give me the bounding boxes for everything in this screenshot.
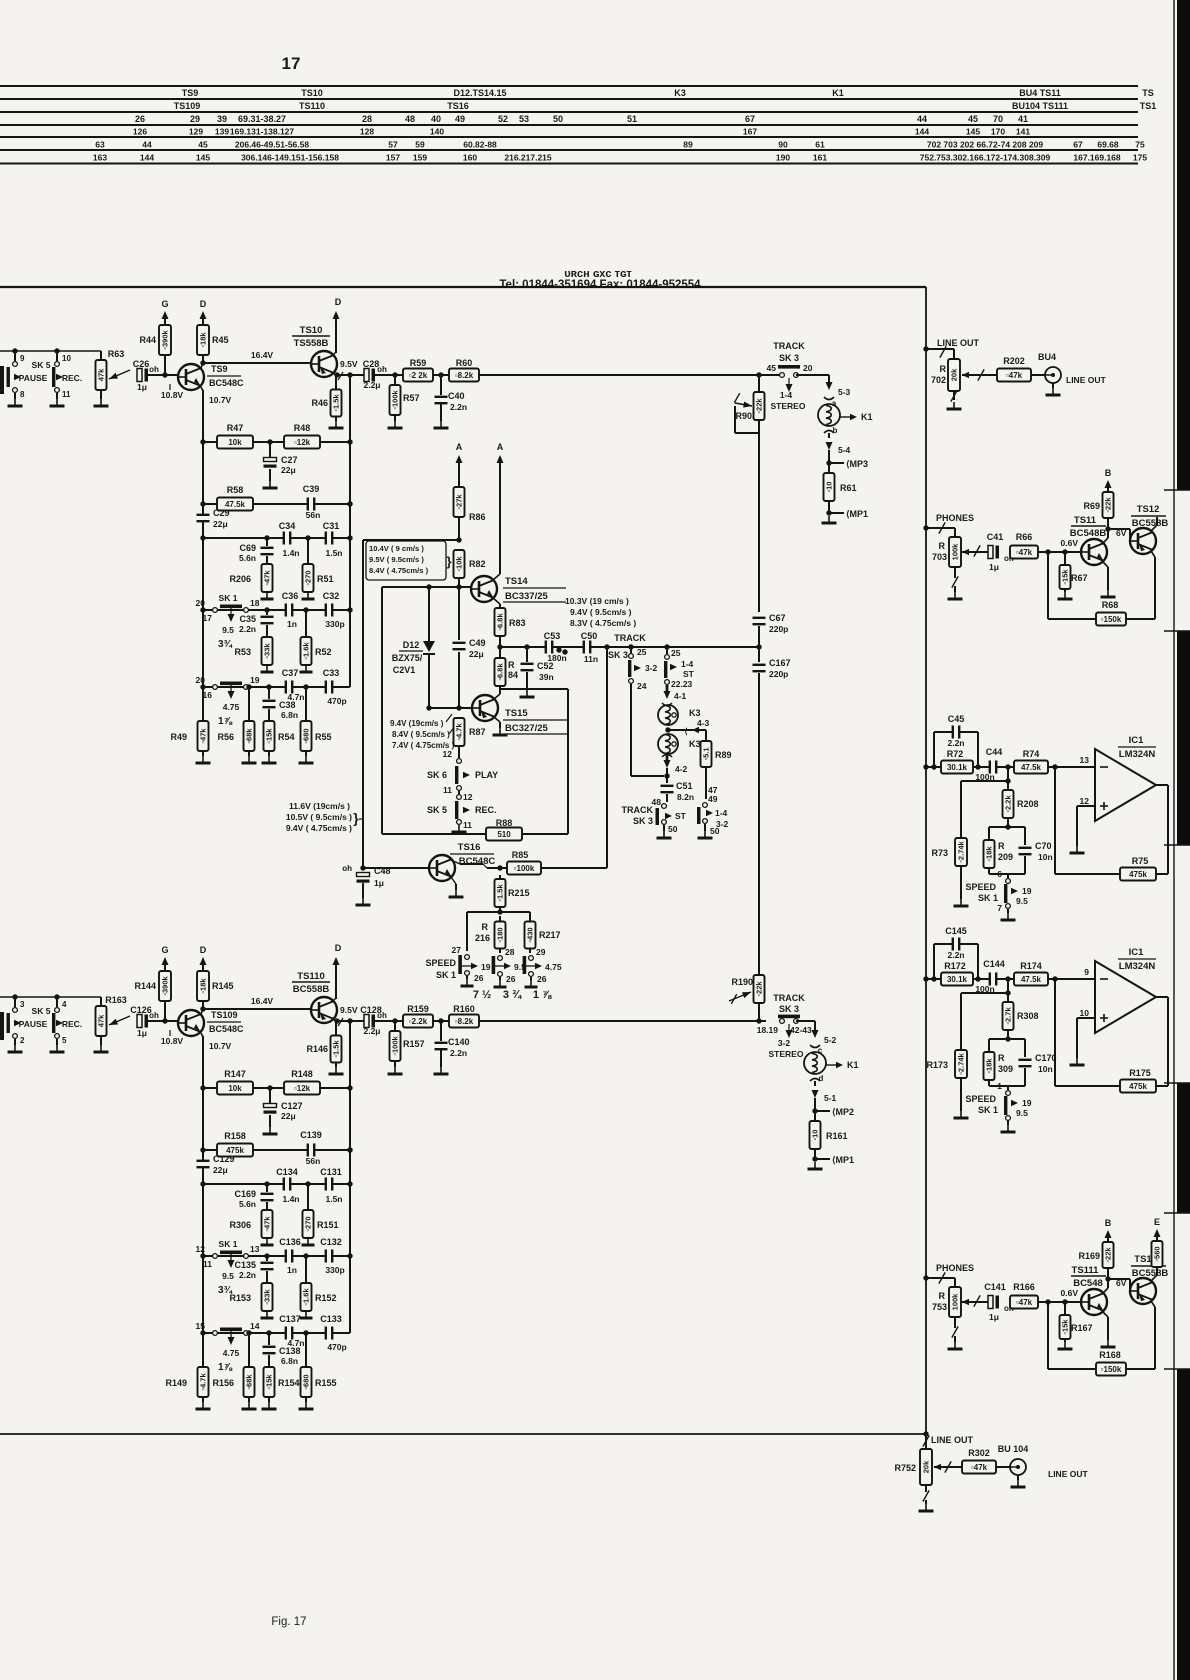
svg-text:10.3V (19 cm/s ): 10.3V (19 cm/s ) bbox=[565, 596, 629, 606]
svg-text:C145: C145 bbox=[945, 926, 967, 936]
svg-text:▫2.2k: ▫2.2k bbox=[409, 1017, 428, 1026]
svg-text:3-2: 3-2 bbox=[778, 1038, 791, 1048]
svg-text:STEREO: STEREO bbox=[769, 1049, 804, 1059]
svg-text:R: R bbox=[939, 541, 946, 551]
svg-text:1μ: 1μ bbox=[989, 1312, 999, 1322]
svg-text:TS109: TS109 bbox=[211, 1010, 238, 1020]
svg-text:PAUSE: PAUSE bbox=[19, 1019, 48, 1029]
svg-text:C140: C140 bbox=[448, 1037, 470, 1047]
svg-text:TS15: TS15 bbox=[505, 708, 528, 719]
svg-text:B: B bbox=[1105, 1218, 1112, 1228]
svg-text:K1: K1 bbox=[847, 1060, 859, 1070]
svg-text:D: D bbox=[335, 943, 342, 953]
svg-text:▫18k: ▫18k bbox=[199, 332, 208, 348]
svg-text:84: 84 bbox=[508, 670, 518, 680]
svg-text:67: 67 bbox=[745, 114, 755, 124]
svg-text:216.217.215: 216.217.215 bbox=[504, 153, 552, 163]
svg-text:R55: R55 bbox=[315, 732, 332, 742]
svg-text:50: 50 bbox=[710, 826, 720, 836]
svg-text:5-3: 5-3 bbox=[838, 387, 851, 397]
svg-text:11: 11 bbox=[443, 785, 452, 795]
svg-text:TS110: TS110 bbox=[297, 971, 324, 982]
svg-text:50: 50 bbox=[553, 114, 563, 124]
svg-text:▫68k: ▫68k bbox=[245, 1374, 254, 1390]
svg-text:22μ: 22μ bbox=[281, 1111, 296, 1121]
svg-text:10: 10 bbox=[1080, 1008, 1090, 1018]
svg-text:C67: C67 bbox=[769, 613, 786, 623]
svg-text:R52: R52 bbox=[315, 647, 332, 657]
svg-text:SK 3: SK 3 bbox=[608, 650, 628, 660]
svg-text:▫150k: ▫150k bbox=[1101, 1365, 1122, 1374]
svg-text:10.7V: 10.7V bbox=[209, 395, 232, 405]
svg-text:R83: R83 bbox=[509, 618, 526, 628]
svg-text:C29: C29 bbox=[213, 508, 230, 518]
svg-text:100k: 100k bbox=[951, 543, 960, 561]
svg-text:44: 44 bbox=[917, 114, 927, 124]
svg-text:SK 1: SK 1 bbox=[219, 593, 238, 603]
svg-text:TRACK: TRACK bbox=[773, 993, 805, 1003]
svg-text:▫6.8k: ▫6.8k bbox=[496, 663, 505, 681]
svg-text:A: A bbox=[456, 442, 463, 452]
svg-text:BU4 TS11: BU4 TS11 bbox=[1019, 88, 1061, 98]
svg-text:TS9: TS9 bbox=[182, 88, 199, 98]
svg-text:47k: 47k bbox=[97, 1014, 106, 1027]
svg-text:75: 75 bbox=[1135, 140, 1145, 150]
svg-text:29: 29 bbox=[536, 947, 546, 957]
svg-text:R69: R69 bbox=[1083, 501, 1100, 511]
svg-text:2.2n: 2.2n bbox=[239, 624, 256, 634]
svg-text:10n: 10n bbox=[1038, 852, 1053, 862]
svg-text:R48: R48 bbox=[294, 423, 311, 433]
svg-text:22μ: 22μ bbox=[469, 649, 484, 659]
svg-text:▫47k: ▫47k bbox=[1016, 548, 1033, 557]
svg-text:9.4V ( 9.5cm/s ): 9.4V ( 9.5cm/s ) bbox=[570, 607, 632, 617]
svg-text:C135: C135 bbox=[234, 1260, 256, 1270]
svg-text:1: 1 bbox=[997, 1081, 1002, 1091]
svg-text:TRACK: TRACK bbox=[622, 805, 654, 815]
svg-text:SK 1: SK 1 bbox=[436, 970, 456, 980]
svg-text:12: 12 bbox=[443, 749, 453, 759]
svg-text:19: 19 bbox=[1022, 886, 1032, 896]
svg-text:170: 170 bbox=[991, 127, 1005, 137]
svg-text:BC548C: BC548C bbox=[459, 856, 496, 867]
svg-text:41: 41 bbox=[1018, 114, 1028, 124]
svg-text:R144: R144 bbox=[134, 981, 156, 991]
svg-text:9.5: 9.5 bbox=[222, 1271, 234, 1281]
svg-text:K3: K3 bbox=[689, 739, 701, 749]
svg-text:5.6n: 5.6n bbox=[239, 1199, 256, 1209]
svg-text:145: 145 bbox=[966, 127, 980, 137]
svg-text:G: G bbox=[161, 945, 168, 955]
svg-text:A: A bbox=[497, 442, 504, 452]
svg-text:R308: R308 bbox=[1017, 1011, 1039, 1021]
svg-text:100k: 100k bbox=[951, 1293, 960, 1311]
svg-text:1⅞: 1⅞ bbox=[218, 716, 233, 727]
svg-text:▫15k: ▫15k bbox=[1061, 569, 1070, 585]
svg-text:C52: C52 bbox=[537, 661, 554, 671]
svg-text:K1: K1 bbox=[832, 88, 844, 98]
svg-text:SK 5: SK 5 bbox=[32, 360, 51, 370]
svg-text:20k: 20k bbox=[922, 1460, 931, 1473]
svg-text:▫22k: ▫22k bbox=[1104, 497, 1113, 513]
svg-text:753: 753 bbox=[932, 1302, 947, 1312]
svg-text:19: 19 bbox=[1022, 1098, 1032, 1108]
svg-text:R56: R56 bbox=[217, 732, 234, 742]
svg-text:▫430: ▫430 bbox=[526, 927, 535, 942]
svg-text:67: 67 bbox=[1073, 140, 1083, 150]
svg-text:1-4: 1-4 bbox=[681, 659, 694, 669]
svg-text:1-4: 1-4 bbox=[715, 808, 728, 818]
svg-text:26: 26 bbox=[135, 114, 145, 124]
svg-text:LINE OUT: LINE OUT bbox=[937, 338, 980, 348]
svg-text:▫18k: ▫18k bbox=[985, 846, 994, 862]
svg-text:25: 25 bbox=[637, 647, 647, 657]
svg-text:52: 52 bbox=[498, 114, 508, 124]
svg-text:▫390k: ▫390k bbox=[161, 975, 170, 995]
svg-text:2.2n: 2.2n bbox=[450, 1048, 467, 1058]
svg-text:16: 16 bbox=[203, 690, 213, 700]
svg-text:1μ: 1μ bbox=[989, 562, 999, 572]
svg-text:18.19: 18.19 bbox=[757, 1025, 779, 1035]
svg-text:R163: R163 bbox=[105, 995, 127, 1005]
svg-text:BU4: BU4 bbox=[1038, 352, 1056, 362]
svg-text:C137: C137 bbox=[279, 1314, 301, 1324]
svg-text:R147: R147 bbox=[224, 1069, 246, 1079]
svg-text:R45: R45 bbox=[212, 335, 229, 345]
svg-text:▫1.5k: ▫1.5k bbox=[496, 884, 505, 902]
svg-text:15: 15 bbox=[196, 1321, 206, 1331]
svg-text:R160: R160 bbox=[453, 1004, 475, 1014]
svg-text:470p: 470p bbox=[327, 1342, 346, 1352]
svg-text:C26: C26 bbox=[133, 359, 150, 369]
svg-text:49: 49 bbox=[708, 794, 718, 804]
svg-text:R: R bbox=[939, 1291, 946, 1301]
svg-text:R61: R61 bbox=[840, 483, 857, 493]
svg-text:10n: 10n bbox=[1038, 1064, 1053, 1074]
svg-text:R: R bbox=[998, 1053, 1005, 1063]
svg-text:BC558B: BC558B bbox=[1132, 518, 1169, 529]
svg-text:17: 17 bbox=[282, 54, 301, 73]
svg-text:45: 45 bbox=[767, 363, 777, 373]
svg-text:SK 1: SK 1 bbox=[219, 1239, 238, 1249]
svg-text:9.5: 9.5 bbox=[222, 625, 234, 635]
svg-text:40: 40 bbox=[431, 114, 441, 124]
svg-text:SK 3: SK 3 bbox=[779, 353, 799, 363]
svg-text:▫47k: ▫47k bbox=[263, 570, 272, 586]
svg-text:C134: C134 bbox=[276, 1167, 298, 1177]
svg-text:R306: R306 bbox=[229, 1220, 251, 1230]
svg-text:49: 49 bbox=[455, 114, 465, 124]
svg-text:C136: C136 bbox=[279, 1237, 301, 1247]
svg-text:C70: C70 bbox=[1035, 841, 1052, 851]
svg-text:475k: 475k bbox=[1129, 1082, 1147, 1091]
svg-text:D: D bbox=[335, 297, 342, 307]
svg-text:89: 89 bbox=[683, 140, 693, 150]
svg-text:TS16: TS16 bbox=[447, 101, 469, 111]
svg-text:▫47k: ▫47k bbox=[971, 1463, 988, 1472]
svg-text:0.6V: 0.6V bbox=[1061, 538, 1079, 548]
svg-text:▫15k: ▫15k bbox=[265, 1374, 274, 1390]
svg-text:70: 70 bbox=[993, 114, 1003, 124]
svg-text:167: 167 bbox=[743, 127, 757, 137]
svg-text:C129: C129 bbox=[213, 1154, 235, 1164]
svg-text:R53: R53 bbox=[234, 647, 251, 657]
svg-text:26: 26 bbox=[506, 974, 516, 984]
svg-text:▫47k: ▫47k bbox=[1016, 1298, 1033, 1307]
svg-text:R68: R68 bbox=[1102, 600, 1119, 610]
svg-text:510: 510 bbox=[497, 830, 511, 839]
svg-text:30.1k: 30.1k bbox=[947, 975, 968, 984]
svg-text:Tel: 01844-351694 Fax: 01844-9: Tel: 01844-351694 Fax: 01844-952554 bbox=[499, 279, 701, 291]
svg-text:D: D bbox=[200, 299, 207, 309]
svg-text:▫33k: ▫33k bbox=[263, 1289, 272, 1305]
svg-text:5-4: 5-4 bbox=[838, 445, 851, 455]
svg-text:▫270: ▫270 bbox=[304, 1216, 313, 1231]
svg-text:3¾: 3¾ bbox=[218, 639, 233, 650]
svg-text:4-2: 4-2 bbox=[675, 764, 688, 774]
svg-text:⟨MP3: ⟨MP3 bbox=[846, 459, 868, 469]
svg-text:9.5: 9.5 bbox=[1016, 1108, 1028, 1118]
svg-text:1.4n: 1.4n bbox=[282, 548, 299, 558]
svg-text:1⅞: 1⅞ bbox=[218, 1362, 233, 1373]
svg-text:10: 10 bbox=[62, 354, 71, 363]
svg-text:C169: C169 bbox=[234, 1189, 256, 1199]
svg-text:90: 90 bbox=[778, 140, 788, 150]
svg-text:BC337/25: BC337/25 bbox=[505, 591, 548, 602]
svg-text:39n: 39n bbox=[539, 672, 554, 682]
svg-text:R208: R208 bbox=[1017, 799, 1039, 809]
svg-text:C41: C41 bbox=[987, 532, 1004, 542]
svg-text:b: b bbox=[833, 426, 838, 435]
svg-text:Fig. 17: Fig. 17 bbox=[271, 1616, 306, 1628]
svg-text:REC.: REC. bbox=[62, 373, 82, 383]
svg-text:R151: R151 bbox=[317, 1220, 339, 1230]
svg-text:4-1: 4-1 bbox=[674, 691, 687, 701]
svg-text:C31: C31 bbox=[323, 521, 340, 531]
svg-text:1 ⅞: 1 ⅞ bbox=[533, 989, 552, 1001]
svg-text:C51: C51 bbox=[676, 781, 693, 791]
svg-text:R60: R60 bbox=[456, 358, 473, 368]
svg-text:PAUSE: PAUSE bbox=[19, 373, 48, 383]
svg-text:D12.TS14.15: D12.TS14.15 bbox=[453, 88, 506, 98]
svg-text:R302: R302 bbox=[968, 1448, 990, 1458]
svg-text:ST: ST bbox=[675, 811, 687, 821]
svg-text:22.23: 22.23 bbox=[671, 679, 693, 689]
svg-text:C167: C167 bbox=[769, 658, 791, 668]
svg-text:17: 17 bbox=[203, 613, 213, 623]
svg-text:REC.: REC. bbox=[62, 1019, 82, 1029]
svg-text:C139: C139 bbox=[300, 1130, 322, 1140]
svg-text:51: 51 bbox=[627, 114, 637, 124]
svg-text:220p: 220p bbox=[769, 669, 788, 679]
svg-text:SPEED: SPEED bbox=[425, 958, 456, 968]
svg-text:SK 6: SK 6 bbox=[427, 770, 447, 780]
svg-text:C32: C32 bbox=[323, 591, 340, 601]
svg-text:R89: R89 bbox=[715, 750, 732, 760]
svg-text:⟨: ⟨ bbox=[684, 727, 687, 736]
svg-text:▫47k: ▫47k bbox=[199, 728, 208, 744]
svg-text:▫33k: ▫33k bbox=[263, 643, 272, 659]
svg-text:140: 140 bbox=[430, 127, 444, 137]
svg-text:R85: R85 bbox=[512, 850, 529, 860]
svg-text:169.131-138.127: 169.131-138.127 bbox=[230, 127, 295, 137]
svg-text:10k: 10k bbox=[228, 1084, 242, 1093]
svg-text:10.7V: 10.7V bbox=[209, 1041, 232, 1051]
svg-text:47.5k: 47.5k bbox=[1021, 975, 1042, 984]
svg-text:▫12k: ▫12k bbox=[294, 1084, 311, 1093]
svg-text:1n: 1n bbox=[287, 619, 297, 629]
svg-text:3: 3 bbox=[20, 1000, 25, 1009]
svg-text:SK 3: SK 3 bbox=[633, 816, 653, 826]
svg-text:13: 13 bbox=[250, 1244, 260, 1254]
svg-text:R87: R87 bbox=[469, 727, 486, 737]
svg-text:R72: R72 bbox=[947, 749, 964, 759]
svg-text:R: R bbox=[482, 922, 489, 932]
svg-text:TS1: TS1 bbox=[1140, 101, 1157, 111]
svg-text:R67: R67 bbox=[1071, 573, 1088, 583]
svg-text:R74: R74 bbox=[1023, 749, 1040, 759]
svg-text:R168: R168 bbox=[1099, 1350, 1121, 1360]
svg-text:▫390k: ▫390k bbox=[161, 329, 170, 349]
svg-text:R161: R161 bbox=[826, 1131, 848, 1141]
svg-text:C45: C45 bbox=[948, 714, 965, 724]
svg-text:BU104 TS111: BU104 TS111 bbox=[1012, 101, 1068, 111]
svg-text:c: c bbox=[818, 1046, 823, 1055]
svg-text:1-4: 1-4 bbox=[780, 390, 793, 400]
svg-text:R215: R215 bbox=[508, 888, 530, 898]
svg-text:BC548C: BC548C bbox=[209, 378, 244, 388]
svg-text:▫560: ▫560 bbox=[1153, 1246, 1162, 1261]
svg-text:R202: R202 bbox=[1003, 356, 1025, 366]
svg-text:2.2n: 2.2n bbox=[947, 738, 964, 748]
svg-text:▫180: ▫180 bbox=[496, 927, 505, 942]
svg-text:R57: R57 bbox=[403, 393, 420, 403]
svg-text:R172: R172 bbox=[944, 961, 966, 971]
svg-text:9.4V ( 4.75cm/s ): 9.4V ( 4.75cm/s ) bbox=[286, 823, 352, 833]
svg-text:⟨MP2: ⟨MP2 bbox=[832, 1107, 854, 1117]
svg-text:R174: R174 bbox=[1020, 961, 1042, 971]
svg-text:10k: 10k bbox=[228, 438, 242, 447]
svg-text:5: 5 bbox=[62, 1036, 67, 1045]
svg-text:SPEED: SPEED bbox=[965, 882, 996, 892]
svg-text:163: 163 bbox=[93, 153, 107, 163]
svg-text:4.75: 4.75 bbox=[545, 962, 562, 972]
svg-text:47k: 47k bbox=[97, 368, 106, 381]
svg-text:▫2.2k: ▫2.2k bbox=[1004, 795, 1013, 813]
svg-text:702 703 202 66.72-74 208 209: 702 703 202 66.72-74 208 209 bbox=[927, 140, 1044, 150]
svg-text:oh: oh bbox=[342, 864, 352, 873]
svg-text:5.6n: 5.6n bbox=[239, 553, 256, 563]
svg-text:R88: R88 bbox=[496, 818, 513, 828]
svg-text:159: 159 bbox=[413, 153, 427, 163]
svg-text:C131: C131 bbox=[320, 1167, 342, 1177]
svg-text:▫270: ▫270 bbox=[304, 570, 313, 585]
svg-text:1.5n: 1.5n bbox=[325, 548, 342, 558]
svg-text:SK 3: SK 3 bbox=[779, 1004, 799, 1014]
svg-text:6.8n: 6.8n bbox=[281, 710, 298, 720]
svg-text:11: 11 bbox=[203, 1259, 212, 1269]
svg-text:20: 20 bbox=[196, 598, 206, 608]
svg-text:B: B bbox=[1105, 468, 1112, 478]
svg-text:16.4V: 16.4V bbox=[251, 350, 274, 360]
svg-text:oh: oh bbox=[149, 365, 159, 374]
svg-text:4.75: 4.75 bbox=[223, 1348, 240, 1358]
svg-text:R166: R166 bbox=[1013, 1282, 1035, 1292]
svg-text:61: 61 bbox=[815, 140, 825, 150]
svg-text:1n: 1n bbox=[287, 1265, 297, 1275]
svg-text:▫1.6k: ▫1.6k bbox=[302, 642, 311, 660]
svg-text:161: 161 bbox=[813, 153, 827, 163]
svg-text:R58: R58 bbox=[227, 485, 244, 495]
svg-text:R158: R158 bbox=[224, 1131, 246, 1141]
svg-text:8.4V ( 4.75cm/s ): 8.4V ( 4.75cm/s ) bbox=[369, 566, 429, 575]
svg-text:28: 28 bbox=[505, 947, 515, 957]
svg-text:6V: 6V bbox=[1116, 1278, 1127, 1288]
svg-text:R149: R149 bbox=[165, 1378, 187, 1388]
svg-text:1μ: 1μ bbox=[137, 1028, 147, 1038]
svg-text:157: 157 bbox=[386, 153, 400, 163]
svg-text:R167: R167 bbox=[1071, 1323, 1093, 1333]
svg-text:1.5n: 1.5n bbox=[325, 1194, 342, 1204]
svg-text:C49: C49 bbox=[469, 638, 486, 648]
svg-text:C141: C141 bbox=[984, 1282, 1006, 1292]
svg-text:145: 145 bbox=[196, 153, 210, 163]
svg-text:27: 27 bbox=[452, 945, 462, 955]
svg-text:19: 19 bbox=[250, 675, 260, 685]
svg-text:BC558B: BC558B bbox=[293, 984, 330, 995]
svg-text:470p: 470p bbox=[327, 696, 346, 706]
svg-text:▫10k: ▫10k bbox=[455, 556, 464, 572]
svg-text:59: 59 bbox=[415, 140, 425, 150]
svg-text:▫2.7k: ▫2.7k bbox=[1004, 1007, 1013, 1025]
svg-text:56n: 56n bbox=[306, 510, 321, 520]
svg-text:▫8.2k: ▫8.2k bbox=[455, 1017, 474, 1026]
svg-text:11n: 11n bbox=[584, 654, 598, 664]
svg-text:LINE OUT: LINE OUT bbox=[1048, 1469, 1088, 1479]
svg-text:PLAY: PLAY bbox=[475, 770, 498, 780]
svg-text:25: 25 bbox=[671, 648, 681, 658]
svg-text:167.169.168: 167.169.168 bbox=[1073, 153, 1121, 163]
svg-text:C35: C35 bbox=[239, 614, 256, 624]
svg-text:4.75: 4.75 bbox=[223, 702, 240, 712]
svg-text:26: 26 bbox=[537, 974, 547, 984]
svg-text:22μ: 22μ bbox=[213, 1165, 228, 1175]
svg-text:9.5: 9.5 bbox=[1016, 896, 1028, 906]
svg-text:C2V1: C2V1 bbox=[393, 665, 416, 675]
svg-text:39: 39 bbox=[217, 114, 227, 124]
svg-text:C34: C34 bbox=[279, 521, 296, 531]
svg-text:BC558B: BC558B bbox=[1132, 1268, 1169, 1279]
svg-text:2.2μ: 2.2μ bbox=[363, 380, 380, 390]
svg-text:9.5V: 9.5V bbox=[340, 359, 358, 369]
svg-text:53: 53 bbox=[519, 114, 529, 124]
svg-text:18: 18 bbox=[250, 598, 260, 608]
svg-text:R206: R206 bbox=[229, 574, 251, 584]
svg-text:2.2n: 2.2n bbox=[450, 402, 467, 412]
svg-text:▫680: ▫680 bbox=[302, 728, 311, 743]
svg-text:48: 48 bbox=[405, 114, 415, 124]
svg-text:5-2: 5-2 bbox=[824, 1035, 837, 1045]
svg-text:702: 702 bbox=[931, 375, 946, 385]
svg-text:9: 9 bbox=[20, 354, 25, 363]
svg-text:12: 12 bbox=[1080, 796, 1090, 806]
svg-text:19: 19 bbox=[481, 962, 491, 972]
svg-text:R145: R145 bbox=[212, 981, 234, 991]
svg-text:160: 160 bbox=[463, 153, 477, 163]
svg-text:128: 128 bbox=[360, 127, 374, 137]
svg-text:▫22k: ▫22k bbox=[1104, 1247, 1113, 1263]
svg-text:D: D bbox=[200, 945, 207, 955]
